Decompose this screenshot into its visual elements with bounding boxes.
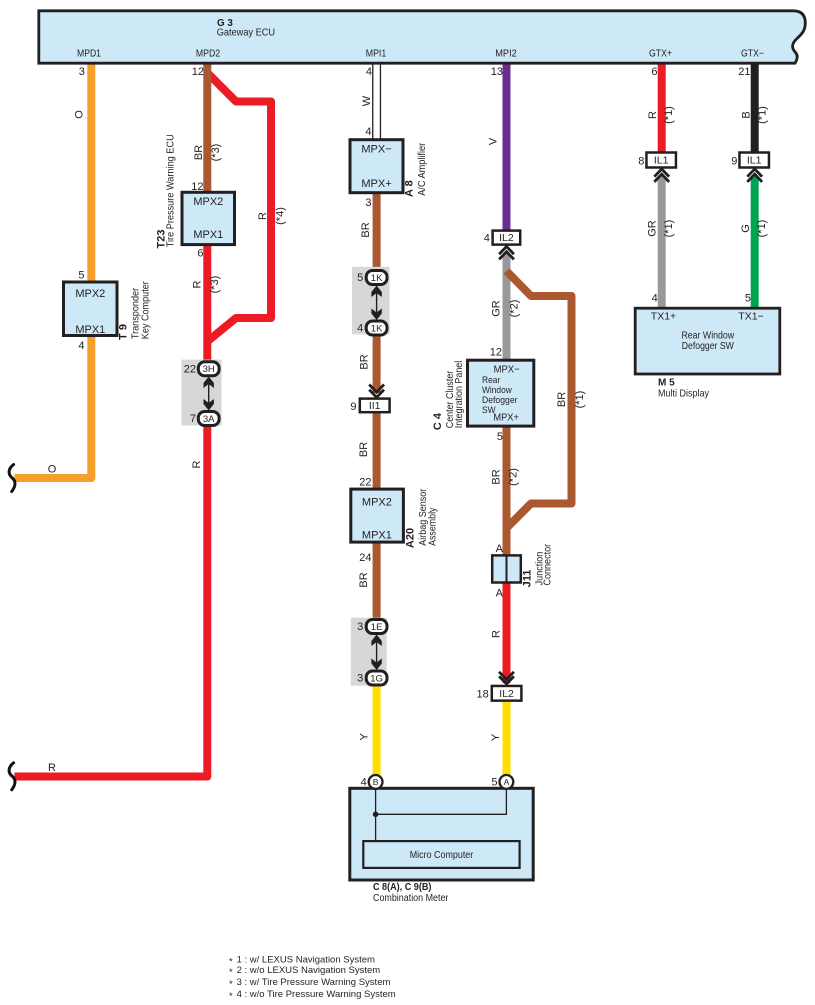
svg-text:Y: Y: [490, 733, 502, 741]
svg-text:2 : w/o LEXUS Navigation Syste: 2 : w/o LEXUS Navigation System: [237, 965, 381, 976]
svg-text:GR: GR: [647, 220, 659, 237]
svg-text:*: *: [229, 967, 233, 978]
svg-text:4 : w/o Tire Pressure Warning: 4 : w/o Tire Pressure Warning System: [237, 989, 396, 1000]
svg-text:Combination Meter: Combination Meter: [373, 893, 449, 904]
svg-text:MPI1: MPI1: [366, 49, 387, 60]
svg-text:W: W: [361, 95, 373, 106]
svg-text:A: A: [496, 543, 504, 555]
svg-text:7: 7: [190, 413, 196, 425]
svg-text:3H: 3H: [203, 364, 215, 375]
svg-text:Gateway ECU: Gateway ECU: [217, 27, 275, 38]
svg-text:T 9: T 9: [118, 324, 130, 340]
svg-text:C 4: C 4: [432, 412, 444, 430]
svg-text:24: 24: [359, 552, 371, 564]
svg-text:MPX+: MPX+: [493, 412, 519, 424]
svg-text:22: 22: [184, 363, 196, 375]
svg-text:Defogger SW: Defogger SW: [682, 341, 734, 352]
svg-text:Y: Y: [359, 732, 371, 740]
svg-text:5: 5: [745, 292, 751, 304]
svg-text:GTX−: GTX−: [741, 49, 764, 60]
svg-text:(*3): (*3): [210, 144, 222, 162]
svg-text:4: 4: [361, 777, 367, 789]
svg-text:4: 4: [78, 340, 84, 352]
svg-text:Connector: Connector: [543, 543, 554, 585]
svg-text:4: 4: [357, 323, 363, 335]
svg-text:MPX−: MPX−: [494, 364, 520, 376]
svg-text:5: 5: [357, 272, 363, 284]
svg-text:3: 3: [357, 673, 363, 685]
svg-text:BR: BR: [491, 469, 503, 484]
svg-text:MPX2: MPX2: [75, 288, 105, 300]
svg-text:IL2: IL2: [499, 688, 514, 700]
svg-text:Rear Window: Rear Window: [681, 330, 734, 341]
svg-text:(*2): (*2): [507, 468, 519, 486]
svg-text:1E: 1E: [371, 622, 383, 633]
svg-text:MPI2: MPI2: [495, 49, 517, 60]
svg-text:3A: 3A: [203, 414, 215, 425]
svg-text:A/C Amplifier: A/C Amplifier: [417, 142, 428, 196]
svg-text:B: B: [373, 777, 379, 787]
svg-text:18: 18: [477, 689, 489, 701]
svg-text:12: 12: [191, 181, 203, 193]
svg-text:Multi Display: Multi Display: [658, 388, 710, 400]
svg-text:4: 4: [366, 66, 372, 78]
svg-text:J11: J11: [521, 570, 533, 588]
svg-text:5: 5: [78, 270, 84, 282]
svg-text:II1: II1: [369, 400, 381, 412]
svg-text:BR: BR: [358, 572, 370, 587]
svg-text:(*1): (*1): [756, 220, 768, 238]
svg-text:MPD1: MPD1: [77, 49, 101, 60]
svg-text:A 8: A 8: [404, 180, 416, 197]
svg-text:TX1+: TX1+: [651, 311, 676, 323]
svg-text:G: G: [740, 224, 752, 233]
svg-text:MPX−: MPX−: [361, 143, 391, 155]
svg-text:TX1−: TX1−: [738, 311, 763, 323]
svg-text:9: 9: [350, 401, 356, 413]
svg-text:(*1): (*1): [574, 391, 586, 409]
svg-text:A: A: [504, 777, 510, 787]
svg-text:1K: 1K: [371, 273, 383, 284]
svg-text:(*2): (*2): [508, 300, 520, 318]
svg-text:MPX1: MPX1: [193, 229, 223, 241]
svg-text:GTX+: GTX+: [649, 49, 672, 60]
svg-text:12: 12: [490, 347, 502, 359]
svg-text:Integration Panel: Integration Panel: [454, 361, 465, 429]
svg-text:9: 9: [731, 156, 737, 168]
svg-text:8: 8: [638, 156, 644, 168]
svg-text:O: O: [74, 110, 86, 119]
svg-text:R: R: [48, 762, 56, 774]
svg-text:6: 6: [651, 66, 657, 78]
svg-text:BR: BR: [359, 354, 371, 369]
svg-text:MPX2: MPX2: [362, 497, 392, 509]
svg-text:Assembly: Assembly: [428, 508, 439, 546]
svg-text:MPD2: MPD2: [196, 49, 221, 60]
svg-text:3 : w/ Tire Pressure Warning S: 3 : w/ Tire Pressure Warning System: [237, 977, 391, 988]
svg-text:C 8(A), C 9(B): C 8(A), C 9(B): [373, 881, 431, 893]
svg-text:(*1): (*1): [757, 106, 769, 124]
svg-text:MPX1: MPX1: [75, 324, 105, 336]
svg-text:R: R: [491, 630, 503, 638]
svg-text:12: 12: [192, 66, 204, 78]
svg-text:3: 3: [365, 197, 371, 209]
svg-text:*: *: [229, 979, 233, 990]
svg-text:BR: BR: [360, 222, 372, 237]
svg-text:V: V: [488, 137, 500, 145]
svg-text:R: R: [191, 460, 203, 468]
svg-text:Tire Pressure Warning ECU: Tire Pressure Warning ECU: [166, 134, 177, 247]
svg-text:O: O: [48, 464, 57, 476]
svg-text:21: 21: [738, 66, 750, 78]
svg-text:IL2: IL2: [499, 232, 514, 244]
svg-text:3: 3: [357, 621, 363, 633]
svg-text:A: A: [496, 588, 504, 600]
svg-text:4: 4: [365, 126, 371, 138]
svg-text:BR: BR: [193, 145, 205, 160]
svg-text:*: *: [229, 991, 233, 1002]
svg-text:6: 6: [197, 248, 203, 260]
svg-text:(*4): (*4): [274, 207, 286, 225]
svg-text:5: 5: [497, 431, 503, 443]
svg-text:4: 4: [652, 292, 658, 304]
svg-text:MPX+: MPX+: [361, 178, 391, 190]
svg-text:GR: GR: [491, 300, 503, 317]
svg-text:B: B: [741, 111, 753, 118]
svg-text:Micro Computer: Micro Computer: [410, 849, 474, 861]
svg-text:A20: A20: [405, 528, 417, 548]
svg-text:13: 13: [491, 66, 503, 78]
svg-text:1K: 1K: [371, 323, 383, 334]
svg-text:1G: 1G: [370, 673, 383, 684]
svg-text:(*1): (*1): [663, 106, 675, 124]
svg-text:(*1): (*1): [663, 220, 675, 238]
svg-text:R: R: [257, 212, 269, 220]
svg-text:22: 22: [359, 476, 371, 488]
svg-text:R: R: [192, 280, 204, 288]
svg-text:5: 5: [491, 777, 497, 789]
svg-text:Key Computer: Key Computer: [140, 281, 151, 340]
svg-text:(*3): (*3): [209, 276, 221, 294]
svg-text:MPX1: MPX1: [362, 530, 392, 542]
svg-text:BR: BR: [556, 392, 568, 407]
svg-text:MPX2: MPX2: [193, 196, 223, 208]
svg-text:R: R: [647, 111, 659, 119]
svg-text:IL1: IL1: [654, 155, 669, 167]
svg-text:4: 4: [484, 232, 490, 244]
svg-text:BR: BR: [358, 442, 370, 457]
svg-text:3: 3: [79, 66, 85, 78]
svg-text:IL1: IL1: [747, 155, 762, 167]
